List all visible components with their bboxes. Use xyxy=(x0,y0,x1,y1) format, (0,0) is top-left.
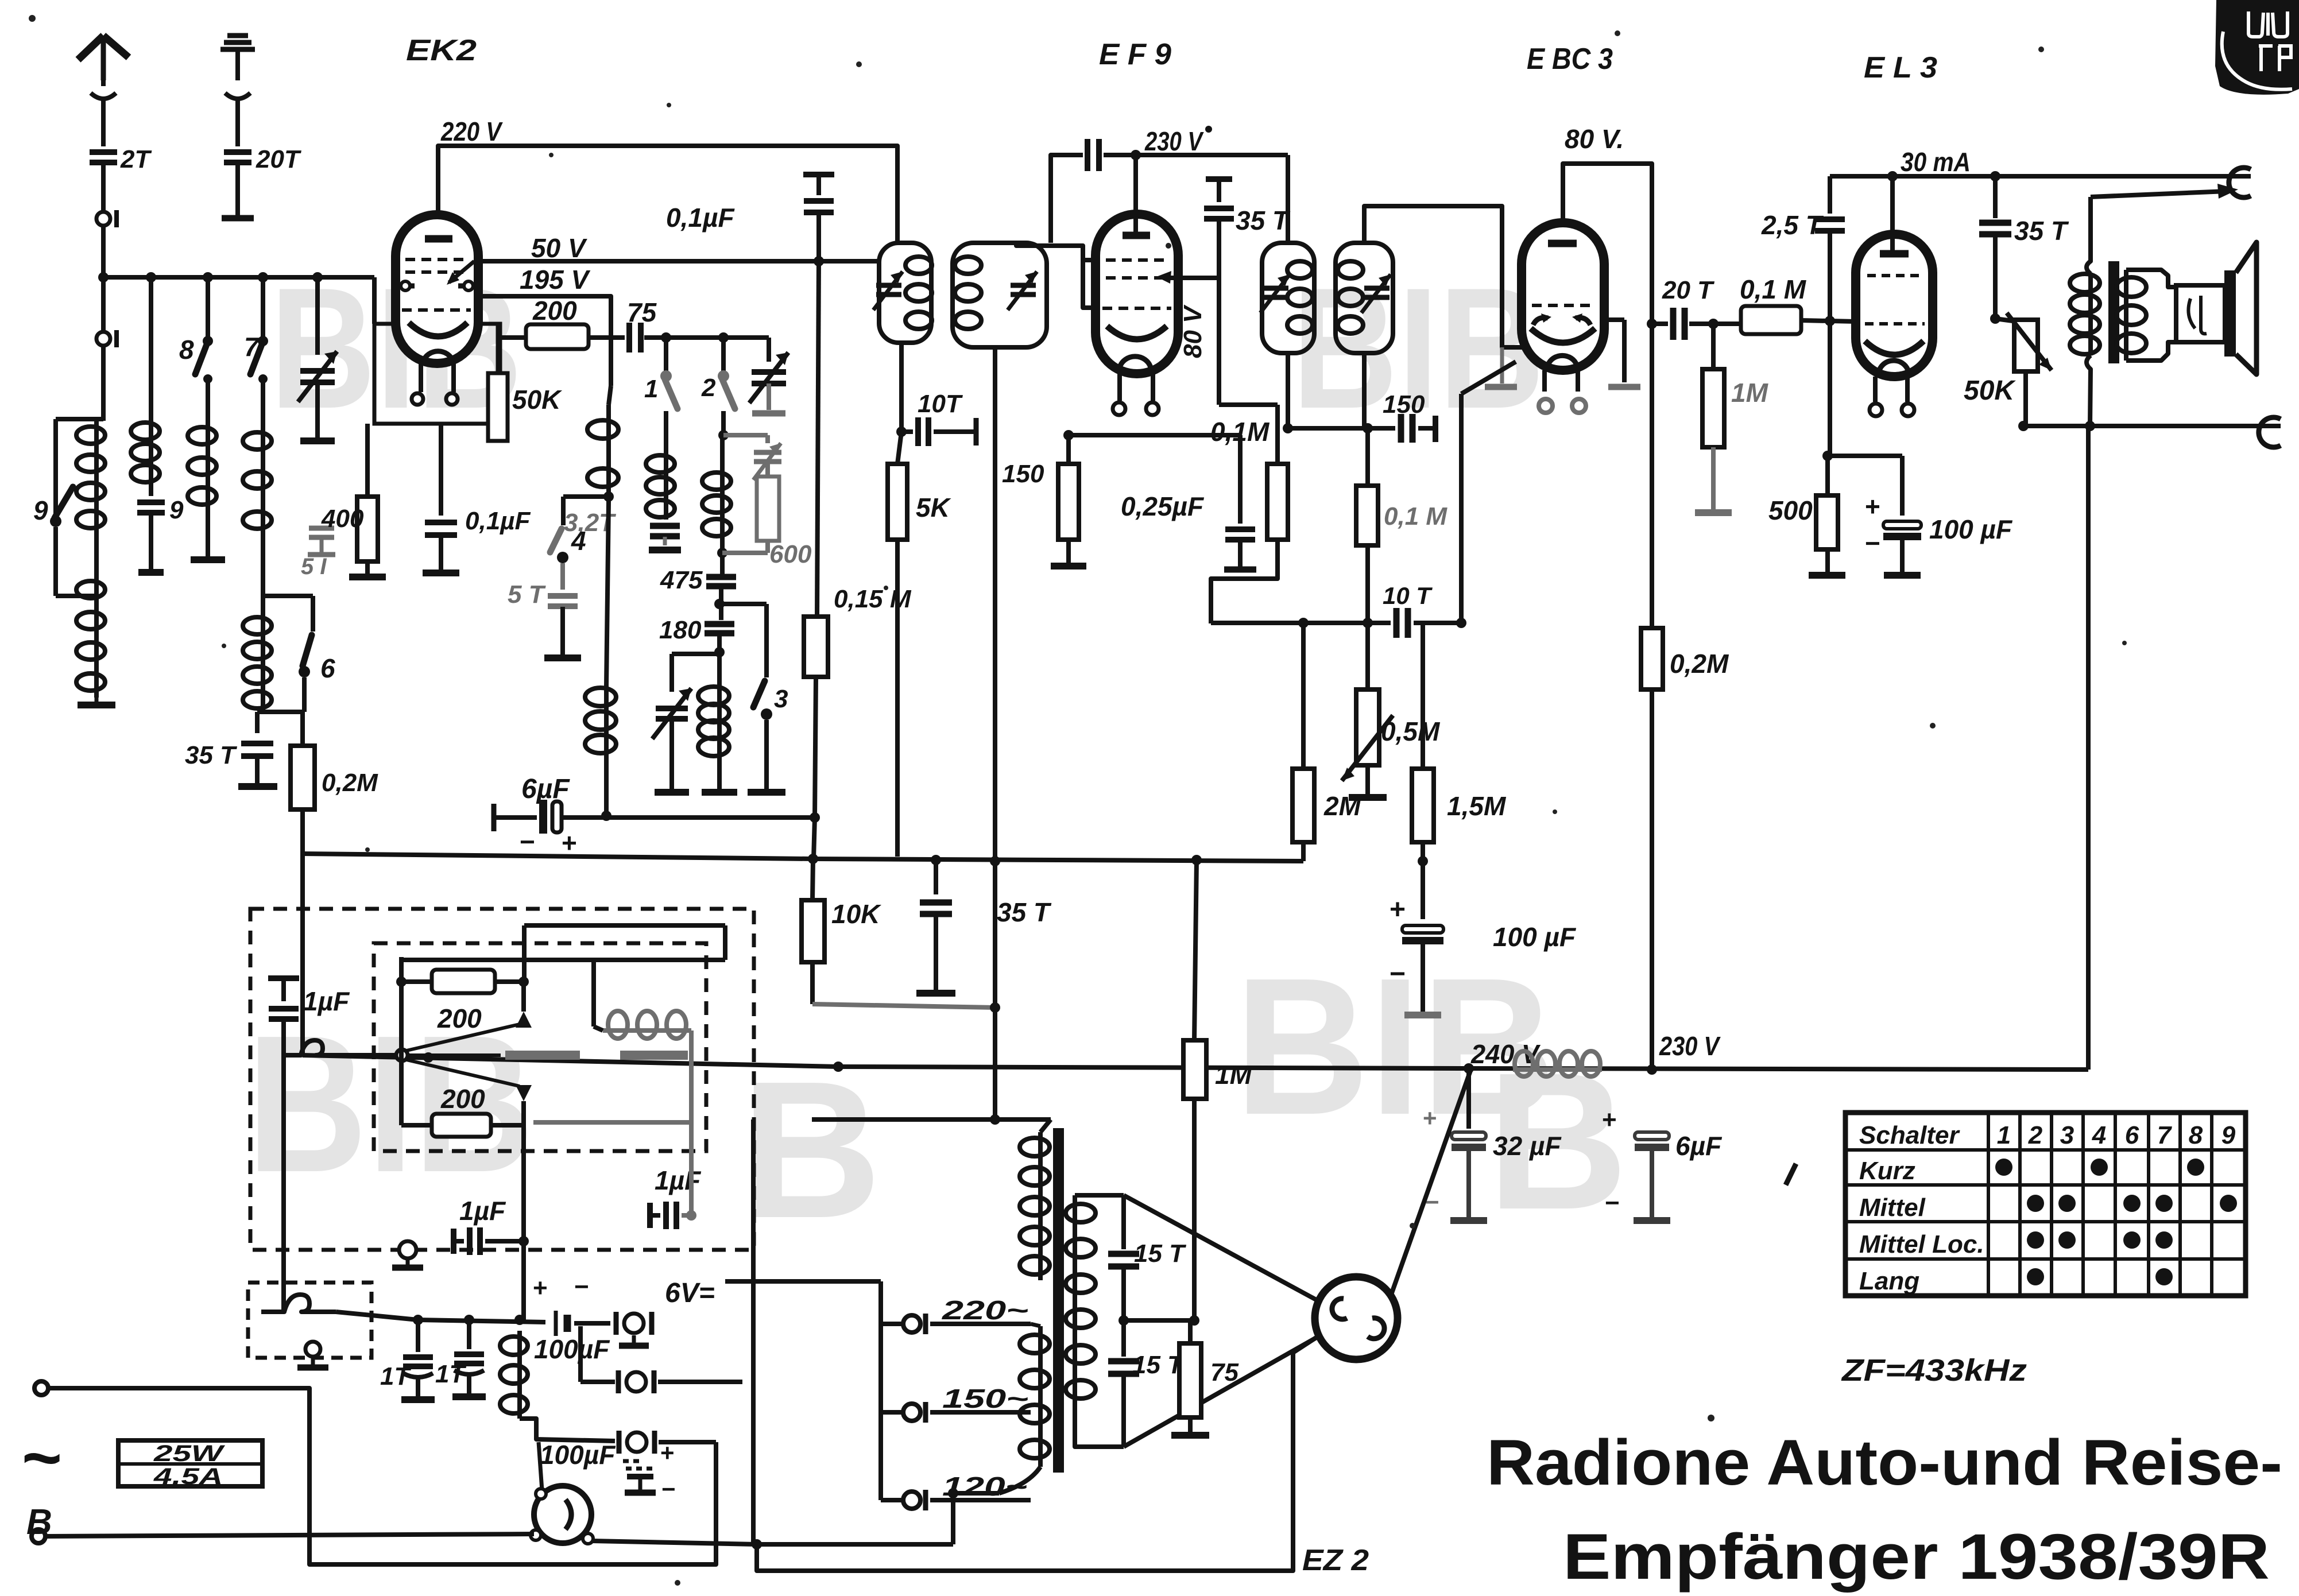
contact arrow lower xyxy=(516,1085,532,1101)
decor xyxy=(1930,723,1936,729)
wire xyxy=(53,527,58,596)
capacitor 150 xyxy=(1368,426,1395,431)
wire xyxy=(261,277,265,336)
ground bar xyxy=(1634,1217,1670,1224)
decor xyxy=(1708,1415,1714,1421)
tap 120 xyxy=(903,1492,920,1509)
wire xyxy=(658,1380,742,1384)
svg-text:0,1 M: 0,1 M xyxy=(1740,274,1807,304)
wire gray link xyxy=(812,1004,995,1008)
svg-text:1T: 1T xyxy=(380,1362,411,1390)
wire xyxy=(934,914,938,990)
junction dots xyxy=(413,1315,423,1325)
choke loop xyxy=(284,1040,350,1055)
decor xyxy=(2122,641,2127,645)
svg-text:ZF=433kHz: ZF=433kHz xyxy=(1841,1353,2027,1388)
resistor 600 xyxy=(757,477,779,541)
svg-text:BIB: BIB xyxy=(247,995,534,1213)
wire 80V xyxy=(1563,164,1652,1070)
battery 6uF xyxy=(491,804,497,831)
svg-text:10 T: 10 T xyxy=(1383,582,1433,609)
OT primary arrow wire xyxy=(2091,191,2227,197)
terminal row2 xyxy=(626,1372,646,1392)
resistor 1M xyxy=(1711,324,1716,369)
switch 8 xyxy=(206,336,210,340)
ground bar xyxy=(401,1396,435,1403)
gray node xyxy=(686,1210,696,1221)
reed arm upper xyxy=(407,1024,520,1051)
svg-text:500: 500 xyxy=(1768,495,1813,525)
junction dot xyxy=(1283,423,1293,433)
junction dot xyxy=(814,256,824,266)
wire xyxy=(1828,454,1902,458)
EK2 plate bar xyxy=(425,235,452,243)
EK2 pin box xyxy=(374,324,500,424)
wire xyxy=(1900,540,1905,572)
junction dot xyxy=(2018,421,2029,431)
capacitor 15T upper xyxy=(1121,1195,1126,1249)
svg-text:15 T: 15 T xyxy=(1132,1351,1185,1379)
svg-text:0,2M: 0,2M xyxy=(322,769,378,797)
svg-text:180: 180 xyxy=(659,616,702,644)
wire xyxy=(1650,1147,1654,1217)
capacitor 2.5T xyxy=(1828,176,1832,214)
wire xyxy=(2023,371,2028,426)
speaker bar xyxy=(2224,270,2236,357)
wire xyxy=(498,335,526,340)
reed gray bars xyxy=(505,1051,580,1060)
wire xyxy=(1286,353,1290,428)
wire xyxy=(261,540,265,614)
svg-text:2: 2 xyxy=(2028,1121,2043,1149)
OT primary xyxy=(2087,197,2091,274)
svg-text:100µF: 100µF xyxy=(534,1334,610,1364)
svg-text:5 I: 5 I xyxy=(301,554,327,579)
junction dot xyxy=(752,1539,762,1549)
svg-text:100 µF: 100 µF xyxy=(1929,514,2013,544)
AVC wire xyxy=(1414,621,1461,625)
ground xyxy=(649,547,681,553)
capacitor 5T xyxy=(560,563,565,590)
decor xyxy=(1615,30,1620,36)
svg-text:75: 75 xyxy=(1210,1358,1238,1386)
wire xyxy=(1801,320,1856,321)
wire diode xyxy=(1288,426,1368,431)
wire xyxy=(672,652,719,656)
switch 3 xyxy=(753,681,765,707)
svg-text:+: + xyxy=(562,828,577,858)
coil L3 xyxy=(206,421,210,511)
junction dot xyxy=(1456,618,1466,628)
svg-text:6µF: 6µF xyxy=(1675,1131,1723,1161)
svg-text:5 T: 5 T xyxy=(508,580,546,609)
wire xyxy=(810,962,815,1004)
wire feed xyxy=(524,923,725,928)
svg-text:0,1M: 0,1M xyxy=(1210,417,1270,447)
svg-text:1µF: 1µF xyxy=(655,1165,702,1195)
wire xyxy=(725,1279,881,1284)
end bar xyxy=(1224,567,1256,573)
decor xyxy=(667,103,671,107)
EL3 pin stubs xyxy=(1873,377,1878,402)
capacitor 35T EF9 xyxy=(1206,176,1232,182)
200 network top rail xyxy=(401,958,725,962)
junction dot xyxy=(990,856,1000,866)
wire xyxy=(1954,321,1955,426)
svg-text:7: 7 xyxy=(2157,1121,2173,1149)
svg-text:Lang: Lang xyxy=(1859,1267,1919,1295)
junction dot xyxy=(717,548,727,558)
svg-text:30 mA: 30 mA xyxy=(1901,147,1971,177)
cathode junction xyxy=(1822,451,1833,461)
svg-text:+: + xyxy=(1602,1106,1617,1134)
junction dot xyxy=(808,854,818,864)
EBC3 grid dashes xyxy=(1532,304,1595,307)
svg-text:195 V: 195 V xyxy=(520,265,591,295)
EL3 plate bar xyxy=(1880,250,1909,258)
junction dot xyxy=(423,1052,434,1063)
switch 1 xyxy=(660,370,672,382)
vibrator coil gray xyxy=(603,1028,691,1033)
coil L1b xyxy=(94,574,99,698)
wire xyxy=(372,277,377,324)
svg-text:32 µF: 32 µF xyxy=(1493,1131,1562,1161)
wire xyxy=(644,335,769,340)
wire xyxy=(1124,1318,1194,1323)
resistor 75 xyxy=(1188,1320,1193,1343)
wire xyxy=(281,1019,286,1312)
svg-text:25W: 25W xyxy=(153,1441,226,1466)
capacitor 1uF bottom xyxy=(451,1229,456,1254)
ground bar xyxy=(702,789,737,796)
tube EBC3 xyxy=(1522,223,1604,370)
svg-text:Schalter: Schalter xyxy=(1859,1121,1961,1149)
capacitor 100uF series xyxy=(554,1311,558,1336)
capacitor 1T b xyxy=(467,1320,471,1349)
svg-text:35 T: 35 T xyxy=(997,897,1052,927)
junction dot xyxy=(990,1114,1000,1125)
tube EZ2 xyxy=(1315,1277,1398,1359)
svg-text:9: 9 xyxy=(169,496,184,524)
connector node xyxy=(96,212,110,226)
svg-text:20T: 20T xyxy=(256,145,301,173)
coil 3.2T lower xyxy=(604,685,609,756)
ground xyxy=(632,1335,636,1343)
logo xyxy=(2215,0,2299,95)
svg-text:0,1 M: 0,1 M xyxy=(1384,502,1447,530)
EK2 grid dashes xyxy=(405,258,470,261)
EK2 anode pins xyxy=(409,284,415,289)
svg-text:0,5M: 0,5M xyxy=(1381,716,1441,746)
antenna A1 arrow xyxy=(78,36,129,60)
wire xyxy=(767,338,771,362)
switch 1 wire xyxy=(664,338,668,373)
wire xyxy=(1421,944,1425,1012)
junction dot xyxy=(203,272,213,282)
resistor 50K xyxy=(496,324,500,373)
wire xyxy=(812,1004,813,1119)
resistor 0.1M EF9 xyxy=(1275,405,1280,464)
capacitor 0.1uF xyxy=(425,520,457,525)
junction dot xyxy=(833,1062,843,1072)
wire xyxy=(1286,155,1290,243)
capacitor 15T lower xyxy=(1121,1320,1126,1357)
svg-text:1µF: 1µF xyxy=(303,986,350,1016)
wire grid EF9 xyxy=(1016,243,1096,308)
coil L2 xyxy=(149,421,153,484)
resistor 200 upper xyxy=(401,979,432,984)
switch 6 tap wire xyxy=(263,594,313,598)
table dots Lang xyxy=(2027,1268,2044,1285)
wire xyxy=(591,960,596,1026)
wire 220V xyxy=(438,146,897,243)
variable capacitor osc xyxy=(752,369,786,375)
capacitor 100uF EL3 xyxy=(1900,456,1905,516)
wire xyxy=(767,383,771,410)
junction dot xyxy=(601,811,611,821)
table dots Kurz xyxy=(1995,1159,2012,1176)
antenna bus wire xyxy=(103,275,374,280)
EF9 pin stubs xyxy=(1117,374,1122,401)
svg-text:475: 475 xyxy=(660,566,703,594)
wire xyxy=(315,277,320,355)
wire xyxy=(895,540,900,857)
wire 6V row xyxy=(418,1320,545,1322)
wire xyxy=(664,411,668,452)
svg-text:220~: 220~ xyxy=(942,1295,1028,1325)
svg-text:7: 7 xyxy=(244,332,260,362)
transformer mains winding xyxy=(1038,1326,1043,1467)
junction dot xyxy=(1191,855,1202,865)
capacitor 35T EL3 xyxy=(1993,176,1998,218)
vibrator unit xyxy=(534,1486,591,1543)
speaker hook 2 xyxy=(2259,417,2281,447)
wire xyxy=(235,96,240,146)
switch 9 wire xyxy=(53,419,58,516)
svg-text:10T: 10T xyxy=(918,390,963,418)
wire 240V riser xyxy=(1392,1071,1470,1293)
capacitor 0.1uF top xyxy=(803,172,834,177)
ground xyxy=(95,698,99,705)
wire xyxy=(717,756,722,789)
wire xyxy=(1075,1193,1124,1198)
junction dot xyxy=(518,1236,529,1246)
wire xyxy=(336,1312,418,1320)
decor xyxy=(884,586,888,590)
wire heater diag lower xyxy=(1124,1337,1318,1447)
table dots Mittel xyxy=(2027,1195,2044,1212)
wire xyxy=(101,96,106,146)
coil L1a xyxy=(94,421,99,534)
svg-text:B: B xyxy=(741,1041,882,1259)
capacitor 10T xyxy=(901,429,913,434)
svg-text:1: 1 xyxy=(1997,1121,2011,1149)
EF9 plate bar xyxy=(1123,232,1150,239)
IFT1 primary box xyxy=(879,243,931,343)
ground bar xyxy=(1051,563,1086,570)
resistor 150 xyxy=(1066,435,1071,464)
wire xyxy=(751,1119,756,1544)
switch 2 wire xyxy=(721,338,726,373)
junction dot xyxy=(1647,1064,1657,1075)
speaker box xyxy=(2176,285,2225,342)
svg-text:600: 600 xyxy=(769,540,812,568)
wire xyxy=(1066,540,1071,563)
IFT4 varcap xyxy=(1364,286,1390,291)
svg-text:35 T: 35 T xyxy=(1236,206,1291,235)
wire xyxy=(663,537,667,545)
resistor 1M xyxy=(1194,860,1197,1040)
junction dot xyxy=(1990,313,2000,324)
tap 150 xyxy=(903,1404,920,1421)
junction dot xyxy=(1118,1315,1129,1326)
wire xyxy=(56,417,103,421)
wire xyxy=(149,484,153,496)
wire xyxy=(1711,447,1716,509)
junction dot xyxy=(518,977,529,987)
terminal bar xyxy=(222,215,254,222)
capacitor gray stub xyxy=(309,526,334,531)
antenna lead break arc xyxy=(225,93,250,99)
wire xyxy=(439,424,443,516)
junction dot xyxy=(1708,319,1719,329)
switch 4 tap xyxy=(563,494,609,499)
connector ground xyxy=(305,1342,320,1357)
capacitor 0.25uF xyxy=(1238,435,1243,524)
wire xyxy=(1421,842,1425,861)
tube EK2 xyxy=(396,215,478,363)
capacitor 1T a xyxy=(416,1320,420,1352)
wire xyxy=(235,163,240,216)
ground xyxy=(349,574,386,580)
IFT2 coil xyxy=(955,257,981,274)
wire xyxy=(521,982,526,1012)
capacitor 475 xyxy=(706,574,736,580)
wire xyxy=(195,377,208,378)
wire xyxy=(206,511,210,556)
EL3 grid dashes xyxy=(1867,274,1922,277)
resistor 10K xyxy=(812,859,813,900)
svg-text:E F 9: E F 9 xyxy=(1099,38,1171,71)
IFT1 primary coil xyxy=(905,257,932,274)
svg-text:2,5 T: 2,5 T xyxy=(1761,210,1824,240)
ground xyxy=(752,410,785,417)
junction dot xyxy=(661,332,671,343)
EK2 cathode arc xyxy=(409,323,467,336)
junction dot xyxy=(1189,1315,1199,1326)
ground bar xyxy=(748,789,785,796)
IFT3 box xyxy=(1262,243,1314,353)
IFT4 box xyxy=(1336,243,1393,353)
decor xyxy=(365,847,370,852)
svg-text:80 V.: 80 V. xyxy=(1565,124,1624,154)
wire xyxy=(149,513,153,569)
junction dot xyxy=(312,272,323,282)
svg-text:8: 8 xyxy=(179,335,194,365)
capacitor 6uF xyxy=(1635,1132,1669,1140)
potentiometer 0.5M xyxy=(1356,689,1379,765)
decor xyxy=(549,153,554,157)
junction dot xyxy=(896,427,907,437)
wire xyxy=(765,541,770,553)
wire xyxy=(302,677,307,712)
tube EL3 xyxy=(1856,234,1933,377)
svg-text:50K: 50K xyxy=(1964,375,2016,406)
junction dot xyxy=(146,272,156,282)
svg-text:9: 9 xyxy=(33,495,48,525)
ground xyxy=(300,437,335,444)
capacitor xyxy=(650,523,680,529)
svg-text:−: − xyxy=(520,827,535,857)
svg-text:35 T: 35 T xyxy=(185,741,237,769)
wire 230V xyxy=(1104,153,1288,157)
wire xyxy=(521,1101,526,1320)
junction dot xyxy=(714,599,725,609)
left rail xyxy=(399,957,404,1125)
svg-text:2: 2 xyxy=(701,374,716,402)
svg-text:200: 200 xyxy=(437,1004,482,1033)
wire gray xyxy=(689,1031,694,1122)
wire xyxy=(1466,1147,1471,1217)
variable capacitor xyxy=(300,368,335,374)
svg-text:1T: 1T xyxy=(435,1360,466,1388)
wire xyxy=(300,712,305,746)
svg-text:100µF: 100µF xyxy=(540,1440,616,1470)
wire xyxy=(717,636,722,687)
wire xyxy=(1365,765,1370,794)
wire xyxy=(720,539,725,575)
wire xyxy=(723,433,768,437)
junction dot xyxy=(1887,171,1898,181)
svg-text:230 V: 230 V xyxy=(1144,126,1204,156)
wire EF9 g2 xyxy=(1168,276,1219,280)
EBC3 pin stubs xyxy=(1542,370,1547,392)
AVC bus wire xyxy=(303,854,1303,861)
svg-text:150~: 150~ xyxy=(942,1384,1028,1413)
filter coil xyxy=(517,1331,522,1419)
ground xyxy=(191,556,225,563)
svg-text:+: + xyxy=(660,1439,675,1466)
EL3 cathode arc xyxy=(1865,341,1923,355)
ground bar xyxy=(1450,1217,1487,1224)
wire 195V xyxy=(478,296,611,386)
IFT3 coil xyxy=(1287,261,1313,278)
table dots MittelLoc xyxy=(2027,1231,2044,1249)
EBC3 pin circles xyxy=(1539,399,1553,413)
capacitor 20T xyxy=(224,149,251,155)
capacitor 9 xyxy=(137,499,165,505)
wire xyxy=(816,212,821,261)
junction dot xyxy=(1363,423,1373,433)
junction dot xyxy=(1298,618,1309,628)
wire xyxy=(1188,1417,1193,1432)
wire xyxy=(757,1338,1316,1571)
junction dot xyxy=(2089,176,2091,177)
table column lines xyxy=(1987,1113,1990,1296)
junction dot xyxy=(258,272,268,282)
wire xyxy=(1121,1266,1126,1320)
variable capacitor trim xyxy=(754,450,781,455)
terminal B2 xyxy=(32,1529,45,1543)
svg-text:15 T: 15 T xyxy=(1134,1239,1186,1268)
speaker coil glyph xyxy=(2188,296,2207,334)
wire xyxy=(539,1442,542,1490)
svg-text:8: 8 xyxy=(2189,1121,2203,1149)
svg-text:0,1µF: 0,1µF xyxy=(666,203,735,233)
wire xyxy=(721,411,726,435)
rating box xyxy=(118,1440,262,1486)
wire xyxy=(899,343,904,432)
